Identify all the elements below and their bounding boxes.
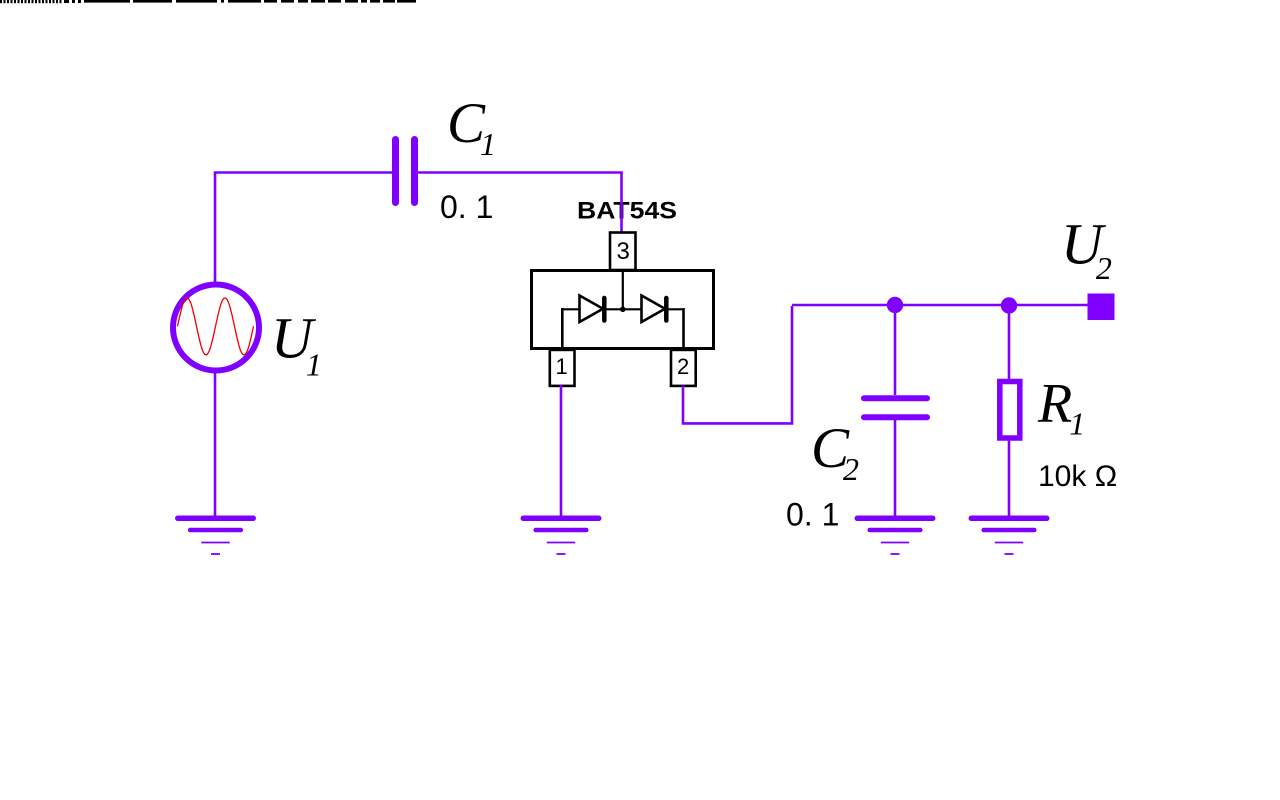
- wire: U1 to ground: [214, 371, 217, 517]
- wire: pin 2 to output node: [683, 306, 792, 423]
- BAT54S body: [532, 271, 714, 349]
- svg-text:C2: C2: [811, 417, 859, 487]
- wire: U1 top to capacitor C1: [215, 173, 392, 285]
- svg-text:C1: C1: [447, 92, 496, 162]
- wire: pin 1 to ground: [560, 385, 563, 516]
- ground under U1: [178, 518, 253, 554]
- junction node at R1: [1001, 297, 1017, 313]
- svg-text:U2: U2: [1061, 212, 1112, 287]
- output terminal U2: [1088, 294, 1115, 321]
- ground under C2: [857, 518, 932, 554]
- svg-text:2: 2: [677, 354, 689, 379]
- capacitor C2: [864, 398, 927, 417]
- svg-text:0. 1: 0. 1: [440, 189, 493, 225]
- svg-text:0. 1: 0. 1: [786, 497, 839, 533]
- svg-text:10k Ω: 10k Ω: [1038, 460, 1117, 493]
- diode D1: [580, 296, 605, 323]
- svg-text:BAT54S: BAT54S: [577, 198, 677, 225]
- truncated title text at top edge: [0, 0, 416, 3]
- main output wire: [792, 304, 1101, 307]
- capacitor C1: [396, 140, 415, 203]
- diode D2: [642, 296, 667, 323]
- junction node at C2: [887, 297, 903, 313]
- svg-text:3: 3: [617, 238, 630, 265]
- ground under R1: [971, 518, 1046, 554]
- BAT54S pin 3 box: [610, 233, 636, 271]
- wire: C1 to BAT54S pin 3: [418, 173, 622, 233]
- resistor R1: [1000, 382, 1020, 439]
- wire: R1 to ground: [1008, 438, 1011, 516]
- signal source U1: [173, 285, 259, 371]
- BAT54S pin 2 box: [671, 350, 696, 386]
- wire: node to C2: [894, 305, 897, 395]
- wire: C2 to ground: [894, 420, 897, 516]
- wire: node to R1: [1008, 305, 1011, 380]
- svg-text:R1: R1: [1037, 373, 1085, 442]
- svg-text:1: 1: [556, 354, 568, 379]
- internal junction dot: [620, 307, 626, 313]
- svg-text:U1: U1: [271, 306, 322, 383]
- sine wave inside U1: [178, 298, 254, 355]
- ground under pin 1: [523, 518, 598, 554]
- BAT54S internal wiring: [562, 269, 683, 349]
- BAT54S pin 1 box: [550, 350, 575, 386]
